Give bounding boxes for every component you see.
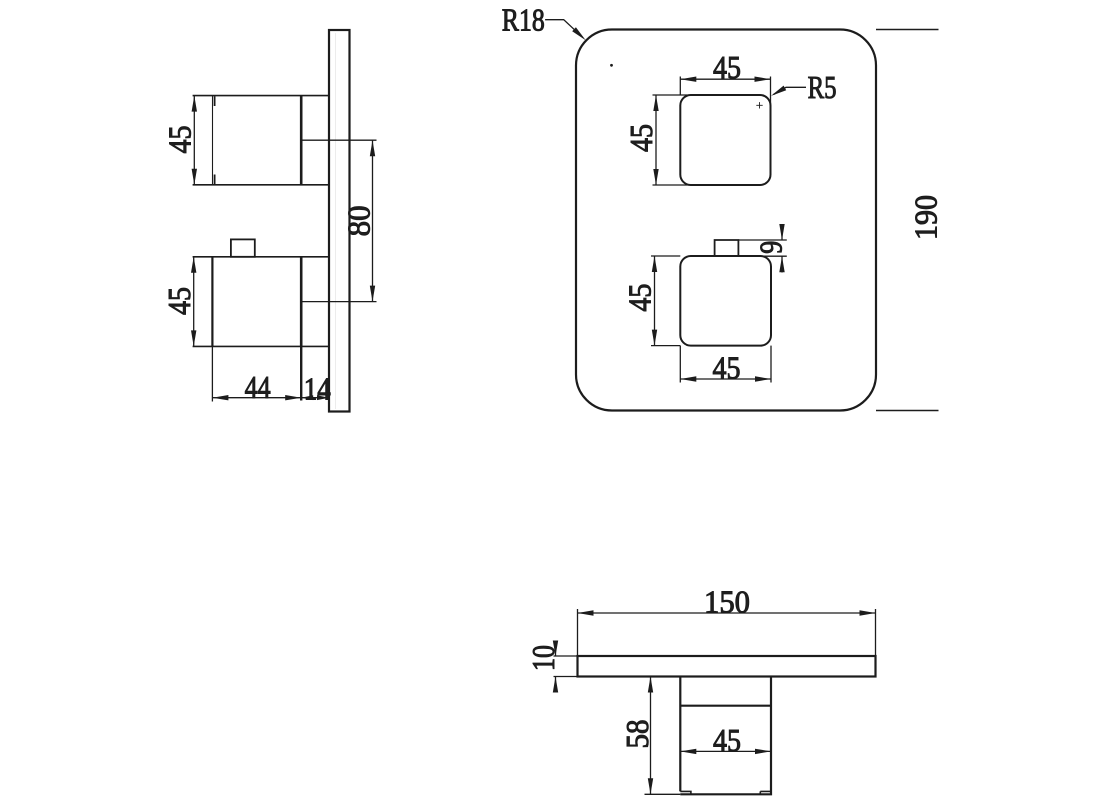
- dim 45 (top square, top): right extension: [770, 77, 772, 106]
- front view: top square knob: [680, 95, 770, 185]
- dim 9: bottom extension (square top): [763, 255, 787, 257]
- dim 45 (bottom square, bottom): left extension: [679, 346, 681, 383]
- dim 45 (top square, left): bottom extension: [653, 184, 692, 186]
- side view: bottom knob front face: [211, 257, 213, 347]
- front view: R5 corner center mark: [756, 102, 762, 108]
- dim 45 (bottom knob): arrow up: [191, 257, 196, 273]
- dim 10: upper leader: [555, 641, 557, 657]
- bottom view: left foot ledge: [680, 791, 691, 794]
- side view: top knob bottom edge (with dim extension): [193, 184, 329, 186]
- dim 10: lower leader: [555, 677, 557, 693]
- side view: top knob front face: [212, 96, 214, 185]
- dim 45 (bottom square, left): arrow up: [652, 256, 657, 272]
- dim 45 (top square, top): arrow right: [755, 77, 771, 82]
- svg-text:10: 10: [525, 645, 561, 671]
- side view: bottom knob top edge (with dim extension): [193, 256, 329, 258]
- dim 190: bottom extension line: [876, 410, 939, 412]
- dim 45 (top square, left): arrow up: [653, 95, 658, 111]
- dim 45 (bottom knob): dimension line: [193, 257, 195, 347]
- bottom view: plate (thin horizontal bar): [578, 656, 876, 677]
- dim 150: dimension line: [578, 612, 876, 614]
- dim 9: lower leader: [781, 256, 783, 272]
- dim 45 (top knob): arrow up: [192, 96, 197, 112]
- dim 45 (top square, top): arrow left: [680, 77, 696, 82]
- svg-text:190: 190: [908, 195, 944, 240]
- dim 44: arrow right: [285, 395, 301, 400]
- svg-text:14: 14: [304, 370, 331, 406]
- dim 9: upper leader: [781, 224, 783, 240]
- label R18: leader arrow: [572, 27, 586, 40]
- dim 150: left extension: [577, 609, 579, 656]
- dim 45 (top square, top): dimension line: [680, 78, 770, 80]
- dim 10: arrow down: [553, 641, 558, 657]
- dim 58: arrow down: [648, 778, 653, 794]
- dim 190: top extension line: [876, 29, 939, 31]
- dim 80: arrow up: [370, 140, 375, 156]
- dim 45 (bottom square, bottom): right extension: [770, 346, 772, 383]
- dim 45 (top square, left): top extension: [653, 94, 692, 96]
- dim 80: upper extension (top knob centerline): [301, 139, 376, 141]
- dim 45 (body): dimension line: [680, 750, 771, 752]
- side view: top knob top edge (with dim extension): [193, 95, 329, 97]
- front view: plate outline R18: [576, 30, 876, 411]
- dim 58: dimension line: [650, 677, 652, 795]
- side view: faint inner surface line of plate: [335, 33, 337, 409]
- svg-text:80: 80: [341, 205, 377, 236]
- dim 44: arrow left: [212, 395, 228, 400]
- svg-text:45: 45: [713, 49, 741, 85]
- dim 45 (bottom square, bottom): arrow right: [755, 376, 771, 381]
- svg-text:45: 45: [623, 124, 659, 152]
- dim 80: dimension line: [372, 140, 374, 301]
- dim 150: arrow left: [578, 610, 594, 615]
- dim 45 (bottom square, left): bottom extension: [651, 345, 680, 347]
- dim 45 (bottom square, left): dimension line: [654, 256, 656, 346]
- dim 14: arrow right: [317, 395, 329, 400]
- side view: top knob back face / flange line: [300, 96, 303, 185]
- dim 44/14: extension line below back face: [300, 346, 302, 400]
- svg-text:44: 44: [245, 369, 271, 405]
- dim 45 (top square, left): dimension line: [655, 95, 657, 185]
- dim 45 (top knob): dimension line: [193, 96, 195, 185]
- dim 45 (bottom square, left): top extension: [651, 255, 680, 257]
- dim 10: arrow up: [553, 677, 558, 693]
- svg-text:45: 45: [713, 350, 741, 386]
- dim 44/14: dimension line: [212, 397, 329, 399]
- dim 9: arrow down: [779, 224, 784, 240]
- bottom view: right foot ledge: [760, 791, 771, 794]
- dim 44/14: extension line below front face: [211, 346, 213, 401]
- front view: bottom square tab: [715, 240, 739, 256]
- dim 45 (bottom square, bottom): arrow left: [680, 376, 696, 381]
- dim 14: arrow left: [301, 395, 313, 400]
- side view: top knob front face bottom step: [214, 175, 216, 185]
- side view: bottom knob back face / flange line: [300, 257, 303, 347]
- side view: top knob front face top step: [214, 96, 216, 106]
- label R5: leader line: [774, 87, 807, 94]
- svg-text:58: 58: [619, 720, 655, 749]
- dim 150: right extension: [875, 609, 877, 656]
- dim 150: arrow right: [860, 610, 876, 615]
- dim 45 (bottom square, left): arrow down: [652, 330, 657, 346]
- dim 45 (top square, left): arrow down: [653, 169, 658, 185]
- svg-text:150: 150: [704, 584, 750, 620]
- dim 45 (bottom knob): arrow down: [191, 330, 196, 346]
- bottom view: body step line: [680, 705, 771, 707]
- dim 45 (top knob): arrow down: [192, 169, 197, 185]
- dim 45 (body): arrow left: [680, 749, 696, 754]
- svg-text:45: 45: [162, 126, 198, 154]
- dim 80: lower extension (bottom knob centerline): [301, 301, 376, 303]
- dim 9: arrow up: [779, 256, 784, 272]
- side view: wall plate (vertical bar): [329, 30, 350, 412]
- dim 9: top extension (tab top): [738, 239, 786, 241]
- svg-text:R18: R18: [502, 1, 545, 37]
- side view: bottom knob tab: [231, 239, 255, 256]
- svg-text:R5: R5: [808, 69, 837, 105]
- dim 45 (body): arrow right: [755, 749, 771, 754]
- svg-text:9: 9: [753, 241, 789, 254]
- bottom view: valve body: [680, 677, 771, 795]
- svg-text:45: 45: [622, 284, 658, 312]
- side view: bottom knob bottom edge (with dim extension): [193, 345, 329, 347]
- svg-text:45: 45: [161, 287, 197, 315]
- dim 58: arrow up: [648, 677, 653, 693]
- dim 58: bottom extension: [645, 793, 681, 795]
- svg-text:45: 45: [713, 722, 741, 758]
- dim 10: top extension: [554, 655, 578, 657]
- label R5: leader arrow: [771, 86, 786, 96]
- front view: R18 corner center mark: [610, 64, 613, 67]
- label R18: leader line: [545, 20, 583, 38]
- dim 10: bottom extension: [554, 676, 578, 678]
- dim 45 (top square, top): left extension: [679, 77, 681, 96]
- dim 45 (bottom square, bottom): dimension line: [680, 378, 771, 380]
- dim 80: arrow down: [370, 286, 375, 302]
- front view: bottom square knob: [680, 256, 771, 346]
